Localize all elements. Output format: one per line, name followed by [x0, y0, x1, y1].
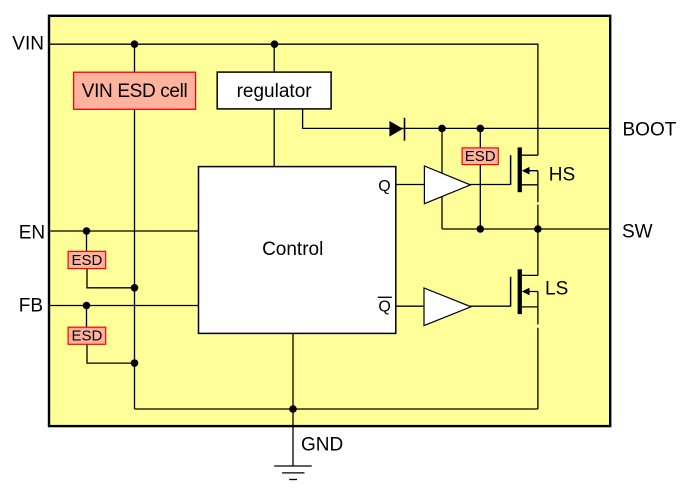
svg-text:GND: GND	[301, 435, 343, 456]
svg-text:Control: Control	[262, 239, 323, 260]
svg-text:Q: Q	[378, 178, 390, 195]
svg-text:HS: HS	[549, 164, 575, 185]
svg-text:BOOT: BOOT	[623, 119, 677, 140]
svg-text:ESD: ESD	[71, 328, 102, 345]
svg-text:LS: LS	[545, 278, 568, 299]
svg-text:VIN ESD cell: VIN ESD cell	[82, 81, 188, 102]
svg-text:regulator: regulator	[237, 81, 313, 102]
svg-text:EN: EN	[19, 222, 45, 243]
svg-text:Q: Q	[378, 299, 390, 316]
svg-text:ESD: ESD	[71, 252, 102, 269]
svg-text:SW: SW	[622, 222, 653, 243]
svg-text:FB: FB	[19, 296, 43, 317]
svg-text:ESD: ESD	[465, 148, 496, 165]
svg-text:VIN: VIN	[12, 34, 44, 55]
